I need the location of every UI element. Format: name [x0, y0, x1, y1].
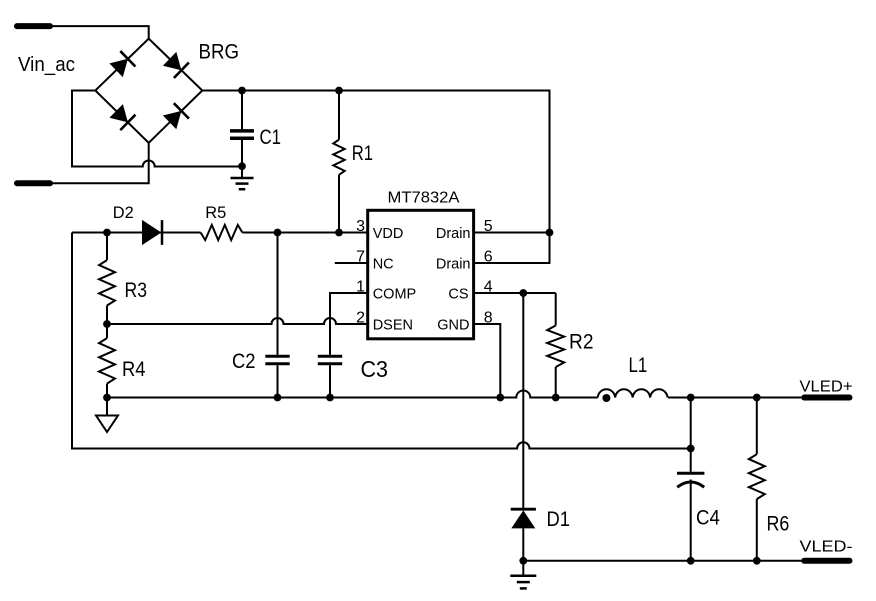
junction [274, 229, 282, 237]
resistor R4 [106, 324, 108, 338]
wire [50, 26, 149, 38]
resistor R2 [555, 293, 557, 326]
capacitor C3 [318, 355, 342, 358]
svg-text:C2: C2 [232, 350, 256, 373]
terminal Vin_ac bottom [17, 180, 50, 186]
svg-text:R5: R5 [205, 204, 226, 222]
svg-text:VDD: VDD [373, 226, 404, 242]
wire (sense loop: left vertical and lower row, hop over D1) [72, 233, 691, 449]
bridge diode bottom-right [163, 111, 182, 129]
wire (DSEN row, hops over C2 and C3 verticals) [107, 318, 368, 324]
wire (VDD row) [72, 232, 201, 234]
bridge diode top-right [163, 52, 182, 70]
ground (D1) [522, 561, 524, 576]
junction [103, 320, 111, 328]
inductor phase dot [602, 394, 610, 402]
terminal VLED+ [804, 395, 849, 401]
svg-text:CS: CS [448, 287, 468, 303]
junction [103, 229, 111, 237]
wire (GND pin 8) [474, 324, 501, 398]
svg-text:R3: R3 [125, 279, 148, 302]
wire (bridge left node loop to C1 bottom, hop over vertical) [72, 91, 242, 167]
svg-text:BRG: BRG [199, 40, 240, 63]
bridge diode bottom-left [109, 104, 128, 122]
junction [519, 557, 527, 565]
inductor L1 [598, 389, 668, 397]
wire (main output row, hop over D1) [107, 391, 598, 398]
svg-text:L1: L1 [629, 354, 648, 377]
resistor R3 [106, 233, 108, 261]
bridge rectifier BRG diamond [95, 39, 202, 143]
junction [753, 394, 761, 402]
svg-text:R2: R2 [569, 331, 594, 354]
resistor R1 [338, 91, 340, 140]
svg-text:DSEN: DSEN [373, 318, 413, 334]
capacitor C1 [241, 91, 243, 130]
resistor R6 [756, 398, 758, 455]
wire (NC stub pin 7) [335, 262, 368, 264]
junction [103, 394, 111, 402]
wire [242, 232, 367, 234]
svg-text:VLED-: VLED- [800, 539, 853, 556]
svg-text:VLED+: VLED+ [800, 379, 853, 396]
wire (CS pin 4) [474, 292, 556, 294]
junction [687, 394, 695, 402]
wire (Drain pin 5) [474, 232, 550, 234]
svg-text:D2: D2 [113, 204, 134, 222]
junction [326, 394, 334, 402]
resistor R5 [201, 225, 243, 240]
capacitor C4 (polarized) [677, 472, 704, 475]
wire [50, 143, 149, 184]
wire [690, 398, 692, 472]
terminal Vin_ac top [17, 23, 50, 29]
junction [546, 229, 554, 237]
svg-text:MT7832A: MT7832A [388, 189, 461, 206]
junction [238, 87, 246, 95]
capacitor C2 [277, 233, 279, 355]
wire (COMP pin 1) [330, 293, 368, 355]
wire (DC bus from bridge to drain) [202, 91, 549, 233]
bridge diode top-left [109, 59, 128, 77]
svg-text:1: 1 [356, 278, 365, 295]
svg-text:3: 3 [356, 218, 365, 235]
svg-text:C4: C4 [696, 507, 720, 530]
svg-text:D1: D1 [547, 507, 571, 531]
diode D2 [142, 220, 161, 245]
junction [335, 87, 343, 95]
wire (VLED- row) [523, 560, 801, 562]
junction [274, 394, 282, 402]
svg-text:Vin_ac: Vin_ac [18, 53, 75, 76]
svg-text:R6: R6 [767, 512, 790, 536]
svg-text:R4: R4 [122, 358, 146, 381]
svg-text:NC: NC [373, 257, 394, 273]
junction [519, 289, 527, 297]
diode D1 (freewheel) [522, 293, 524, 510]
junction [238, 162, 246, 170]
op-amp U1 MT7832A body [368, 210, 474, 338]
junction [687, 557, 695, 565]
junction [552, 394, 560, 402]
svg-text:2: 2 [356, 309, 365, 326]
svg-text:COMP: COMP [373, 287, 417, 303]
wire [668, 397, 801, 399]
svg-text:C3: C3 [361, 356, 389, 382]
wire (Drain pin 6) [474, 233, 550, 264]
ground (signal, open triangle) [106, 398, 108, 416]
svg-text:Drain: Drain [436, 226, 471, 242]
junction [687, 445, 695, 453]
junction [496, 394, 504, 402]
svg-text:GND: GND [437, 318, 469, 334]
svg-text:R1: R1 [352, 142, 373, 165]
terminal VLED- [804, 558, 849, 564]
junction [753, 557, 761, 565]
svg-text:C1: C1 [260, 125, 282, 149]
junction [335, 229, 343, 237]
svg-text:Drain: Drain [436, 257, 471, 273]
ground (C1) [241, 166, 243, 178]
